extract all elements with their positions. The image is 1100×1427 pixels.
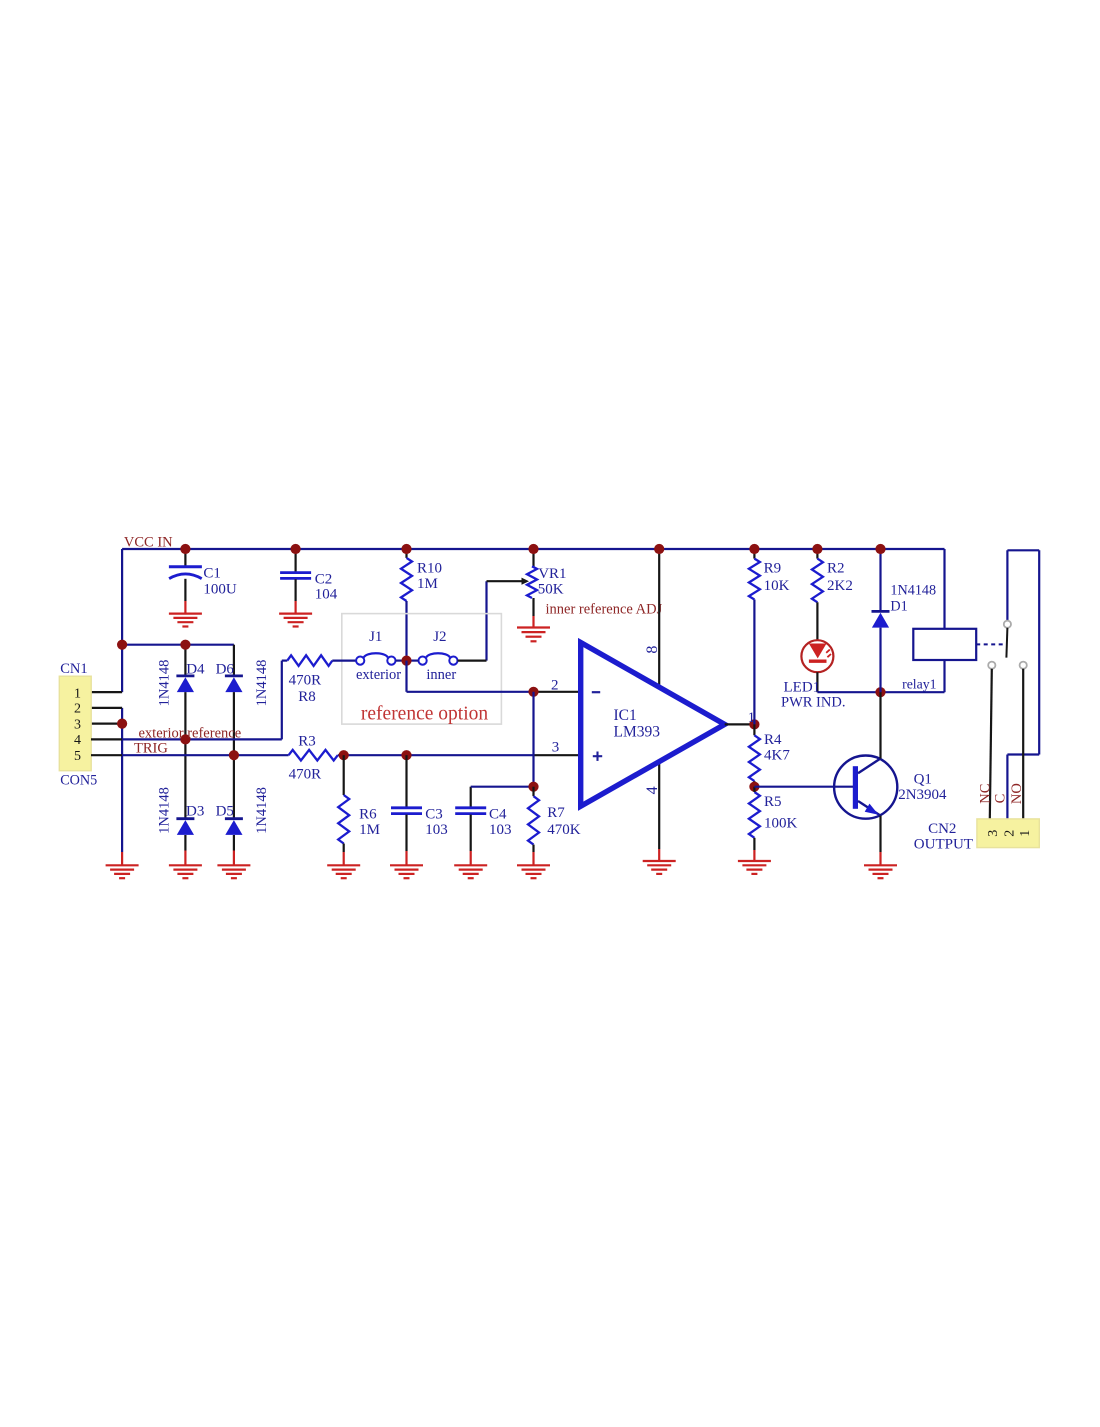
svg-text:OUTPUT: OUTPUT <box>914 837 973 853</box>
svg-text:R4: R4 <box>764 732 782 748</box>
svg-text:1M: 1M <box>417 576 438 592</box>
svg-text:CN1: CN1 <box>60 661 87 677</box>
svg-text:VCC IN: VCC IN <box>124 534 173 550</box>
svg-text:inner reference ADJ: inner reference ADJ <box>546 602 663 618</box>
svg-text:5: 5 <box>74 749 81 764</box>
svg-text:1N4148: 1N4148 <box>254 660 270 707</box>
svg-text:104: 104 <box>315 587 338 603</box>
svg-text:NO: NO <box>1009 783 1025 804</box>
svg-text:470R: 470R <box>289 767 322 783</box>
svg-text:1M: 1M <box>359 822 380 838</box>
svg-text:2: 2 <box>551 677 559 693</box>
svg-text:TRIG: TRIG <box>134 740 168 756</box>
svg-text:exterior: exterior <box>356 667 401 683</box>
svg-text:4: 4 <box>644 786 661 794</box>
svg-text:100U: 100U <box>203 582 237 598</box>
svg-text:C3: C3 <box>425 807 443 823</box>
svg-text:2N3904: 2N3904 <box>898 787 947 803</box>
svg-text:R3: R3 <box>298 733 316 749</box>
svg-text:103: 103 <box>489 822 512 838</box>
svg-text:4: 4 <box>74 733 81 748</box>
svg-text:470R: 470R <box>289 673 322 689</box>
svg-text:3: 3 <box>986 830 1001 837</box>
svg-text:C: C <box>993 794 1009 804</box>
svg-text:reference option: reference option <box>361 704 488 725</box>
svg-text:PWR IND.: PWR IND. <box>781 694 845 710</box>
svg-text:8: 8 <box>644 646 661 654</box>
svg-text:J1: J1 <box>369 629 382 645</box>
svg-text:2: 2 <box>1002 830 1017 837</box>
svg-text:3: 3 <box>552 739 560 755</box>
svg-text:NC: NC <box>977 784 993 804</box>
svg-text:VR1: VR1 <box>538 566 566 582</box>
svg-text:1: 1 <box>1018 830 1033 837</box>
svg-text:D4: D4 <box>186 661 205 677</box>
svg-text:CN2: CN2 <box>928 821 956 837</box>
svg-text:3: 3 <box>74 717 81 732</box>
svg-text:R5: R5 <box>764 794 782 810</box>
svg-text:R2: R2 <box>827 560 845 576</box>
svg-text:LED1: LED1 <box>784 679 821 695</box>
svg-text:D5: D5 <box>216 803 234 819</box>
svg-text:CON5: CON5 <box>60 773 97 789</box>
svg-text:inner: inner <box>426 667 456 683</box>
svg-text:R9: R9 <box>764 560 782 576</box>
svg-text:LM393: LM393 <box>614 723 661 740</box>
svg-text:C4: C4 <box>489 807 507 823</box>
svg-text:10K: 10K <box>764 578 790 594</box>
svg-text:IC1: IC1 <box>614 707 637 724</box>
svg-text:1N4148: 1N4148 <box>890 583 936 599</box>
svg-text:R7: R7 <box>547 805 565 821</box>
svg-text:1N4148: 1N4148 <box>157 787 173 834</box>
svg-text:2K2: 2K2 <box>827 578 853 594</box>
svg-text:103: 103 <box>425 822 448 838</box>
svg-text:470K: 470K <box>547 822 581 838</box>
svg-text:J2: J2 <box>433 629 446 645</box>
svg-text:100K: 100K <box>764 816 798 832</box>
svg-text:4K7: 4K7 <box>764 747 790 763</box>
svg-text:R6: R6 <box>359 807 377 823</box>
svg-text:exterior reference: exterior reference <box>139 726 242 742</box>
svg-text:D3: D3 <box>186 803 204 819</box>
svg-text:C1: C1 <box>203 566 221 582</box>
svg-text:1N4148: 1N4148 <box>254 787 270 834</box>
svg-text:D1: D1 <box>890 598 907 614</box>
svg-text:1N4148: 1N4148 <box>157 660 173 707</box>
svg-text:D6: D6 <box>216 661 235 677</box>
svg-text:R8: R8 <box>298 689 316 705</box>
svg-text:1: 1 <box>74 686 81 701</box>
svg-text:Q1: Q1 <box>914 771 932 787</box>
svg-text:50K: 50K <box>538 582 564 598</box>
svg-text:R10: R10 <box>417 561 442 577</box>
svg-text:C2: C2 <box>315 572 333 588</box>
svg-text:2: 2 <box>74 702 81 717</box>
svg-text:relay1: relay1 <box>902 677 937 692</box>
